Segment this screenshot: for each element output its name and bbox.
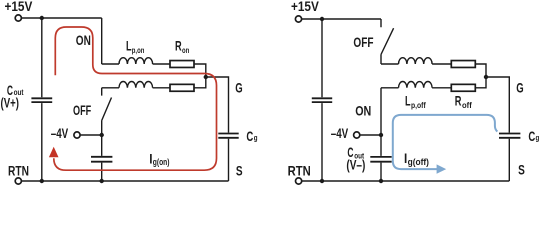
- label Cg (left): [246, 129, 258, 144]
- svg-text:g: g: [536, 133, 540, 143]
- junction rail / Cout right: [379, 179, 383, 183]
- resistor off-path (left circuit, unlabeled): [170, 84, 194, 91]
- resistor on-path (right circuit, unlabeled): [451, 61, 475, 68]
- wire top rail right: [302, 18, 381, 20]
- inductor Lp,on: [119, 58, 153, 64]
- terminal -4V (right): [354, 132, 360, 138]
- wire bottom rail right: [302, 180, 509, 182]
- svg-text:S: S: [236, 163, 243, 179]
- svg-text:+15V: +15V: [291, 0, 319, 14]
- svg-text:OFF: OFF: [353, 34, 373, 50]
- capacitor Cg (right): [499, 134, 520, 138]
- svg-text:RTN: RTN: [288, 164, 311, 179]
- svg-text:on: on: [182, 45, 190, 55]
- label Ig(off): [404, 150, 429, 167]
- arrowhead Ig(off): [437, 164, 447, 173]
- switch OFF open (left): [102, 88, 112, 135]
- wire inductor to resistor (on branch): [153, 63, 170, 65]
- svg-text:L: L: [126, 40, 132, 54]
- svg-text:g(off): g(off): [408, 157, 429, 167]
- capacitor Cg (left): [218, 134, 238, 138]
- resistor Roff: [451, 84, 475, 91]
- switch ON closed (right): [380, 88, 382, 135]
- wire -4V to ON switch (right): [360, 134, 381, 136]
- wire -4V node to bypass cap: [101, 135, 103, 156]
- junction gate node (left): [204, 75, 208, 79]
- wire bottom branch right: [381, 87, 399, 89]
- svg-text:g(on): g(on): [153, 157, 170, 167]
- current loop Ig(off): [393, 115, 498, 169]
- capacitor Cout (V-): [370, 157, 391, 162]
- svg-text:–4V: –4V: [331, 127, 349, 142]
- wire left rail (V+): [41, 18, 43, 181]
- resistor Ron: [170, 61, 194, 68]
- arrowhead Ig(on): [49, 147, 59, 157]
- inductor off-path (left circuit, unlabeled): [119, 82, 153, 88]
- wire -4V node to Cout (right): [380, 135, 382, 156]
- current loop Ig(on): [54, 27, 217, 170]
- svg-text:–4V: –4V: [51, 127, 69, 142]
- svg-text:OFF: OFF: [73, 105, 91, 119]
- svg-text:+15V: +15V: [5, 0, 33, 14]
- label Cout (left): [7, 84, 24, 98]
- wire Cg to source rail (left): [228, 139, 230, 181]
- terminal RTN (right): [296, 178, 302, 184]
- wire right bottom branch to gate node: [475, 77, 486, 88]
- svg-text:off: off: [462, 101, 472, 110]
- wire bypass cap to RTN rail: [101, 163, 103, 181]
- wire bottom branch left (left circuit): [102, 87, 119, 89]
- label Lp,off: [405, 95, 426, 110]
- wire Cout to RTN rail (right): [380, 163, 382, 181]
- junction rail / right left-rail: [320, 179, 324, 183]
- junction rail / bypass cap: [100, 179, 104, 183]
- wire bottom branch to gate node: [194, 77, 206, 88]
- svg-text:(V+): (V+): [1, 96, 20, 111]
- switch ON closed (left): [101, 18, 103, 64]
- junction -4V node (right): [379, 133, 383, 137]
- label Lp,on: [126, 40, 145, 56]
- junction node top-right: [320, 17, 324, 21]
- svg-text:L: L: [405, 95, 411, 109]
- junction rail / left rail: [40, 179, 44, 183]
- svg-text:g: g: [254, 132, 258, 142]
- svg-text:R: R: [175, 40, 182, 54]
- wire bottom rail left: [22, 180, 229, 182]
- wire inductor to resistor (off branch): [153, 87, 170, 89]
- switch OFF open (right): [381, 19, 394, 64]
- wire -4V to switch junction: [80, 134, 101, 136]
- capacitor bypass -4V (left, unlabeled): [91, 157, 112, 162]
- svg-text:S: S: [518, 162, 525, 178]
- label Ron: [175, 40, 190, 55]
- label Cout (right): [347, 146, 364, 161]
- terminal +15V (right): [295, 16, 301, 22]
- svg-text:p,on: p,on: [132, 45, 145, 55]
- wire inductor to resistor (right top): [432, 63, 451, 65]
- svg-text:ON: ON: [76, 33, 91, 49]
- wire top branch left: [102, 63, 119, 65]
- svg-text:(V–): (V–): [346, 157, 365, 173]
- svg-text:R: R: [455, 95, 462, 109]
- svg-text:G: G: [516, 80, 523, 96]
- capacitor Cout (V+): [31, 98, 52, 102]
- wire inductor to resistor (right bottom): [432, 87, 451, 89]
- label Ig(on): [149, 150, 170, 167]
- label Cg (right): [528, 129, 539, 144]
- svg-text:I: I: [149, 150, 152, 166]
- terminal -4V (left): [74, 132, 80, 138]
- wire top branch right: [381, 63, 399, 65]
- svg-text:G: G: [235, 80, 242, 96]
- wire Cg to source rail (right): [508, 139, 510, 181]
- junction node top-left: [40, 16, 44, 20]
- svg-text:C: C: [246, 129, 253, 144]
- svg-text:C: C: [528, 129, 535, 144]
- wire top rail left: [22, 17, 102, 19]
- terminal +15V (left): [15, 15, 21, 21]
- capacitor bypass +15V (right, unlabeled): [312, 98, 332, 102]
- terminal RTN (left): [15, 178, 21, 184]
- label Roff: [455, 95, 472, 110]
- inductor Lp,off: [399, 82, 433, 88]
- svg-text:p,off: p,off: [411, 100, 426, 110]
- svg-text:ON: ON: [355, 103, 371, 118]
- wire gate node to G pin (right): [486, 77, 509, 133]
- svg-text:RTN: RTN: [8, 163, 29, 179]
- wire right top branch to gate node: [475, 64, 486, 77]
- junction gate node (right): [484, 75, 488, 79]
- wire gate node to G pin: [206, 77, 229, 133]
- junction -4V node (left): [100, 133, 104, 137]
- wire top branch to gate node: [194, 64, 206, 77]
- wire right-circuit left rail: [321, 19, 323, 181]
- inductor on-path (right circuit, unlabeled): [399, 58, 433, 64]
